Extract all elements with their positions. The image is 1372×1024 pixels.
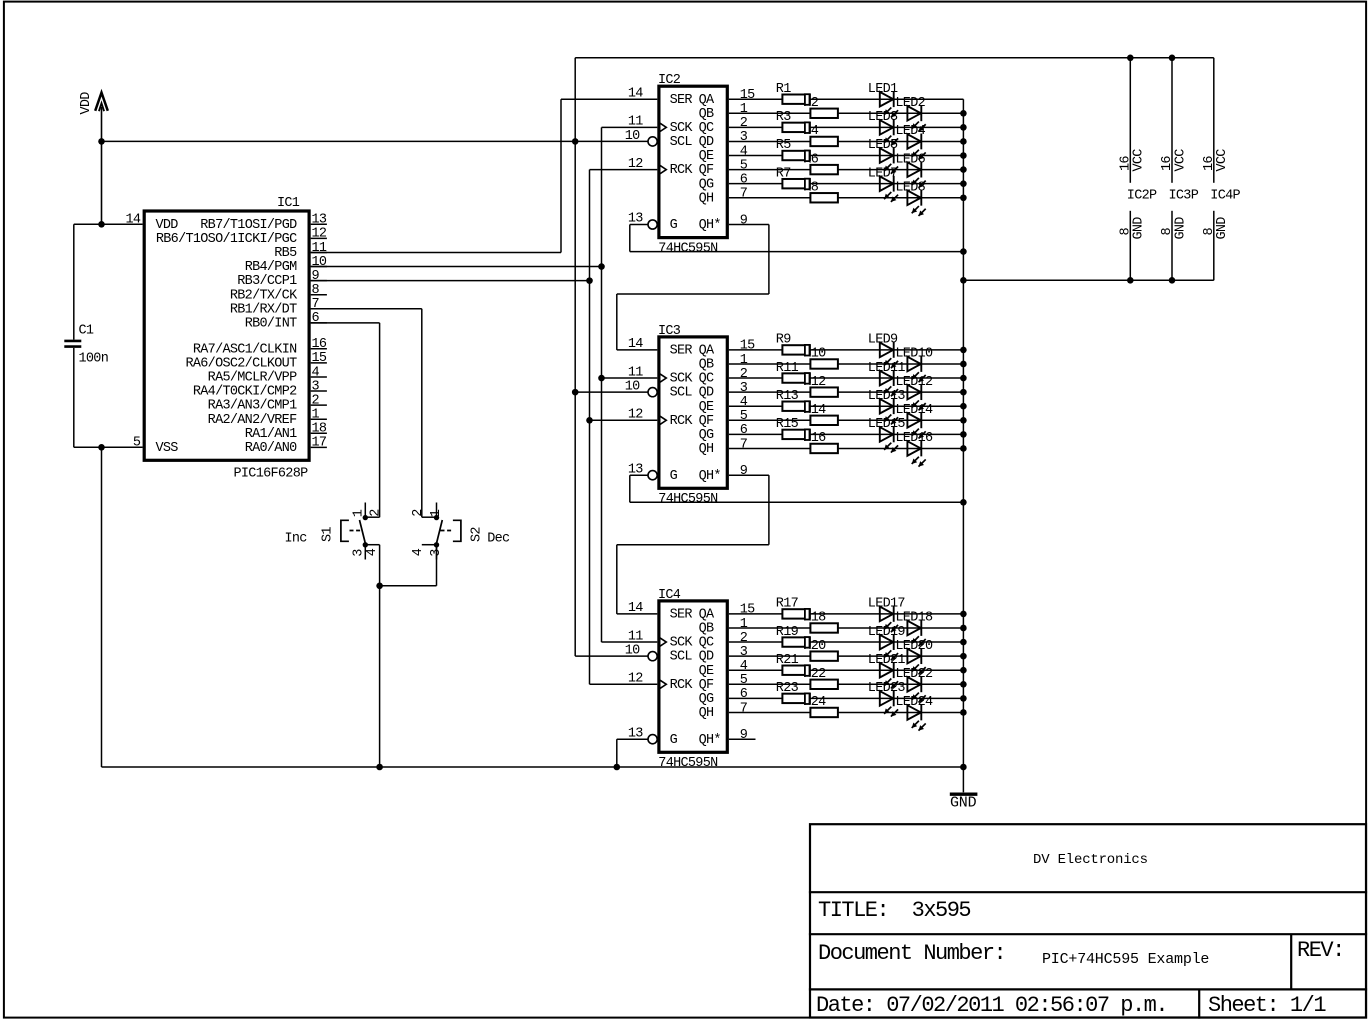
- svg-text:R15: R15: [776, 417, 799, 432]
- svg-text:9: 9: [740, 213, 748, 228]
- svg-text:RA5/MCLR/VPP: RA5/MCLR/VPP: [208, 371, 297, 386]
- junction LED3/bus: [960, 124, 967, 131]
- wire IC2 QH* cascade: [729, 224, 769, 226]
- resistor R19: [782, 637, 810, 646]
- junction LED18/bus: [960, 625, 967, 632]
- svg-text:R13: R13: [776, 389, 799, 404]
- svg-text:G: G: [670, 218, 678, 233]
- svg-text:QB: QB: [699, 622, 714, 637]
- LED LED21: [880, 662, 898, 688]
- svg-text:Document Number:: Document Number:: [818, 941, 1005, 966]
- svg-text:QD: QD: [699, 650, 714, 665]
- wire IC4 QD to LED: [729, 655, 964, 657]
- svg-text:R11: R11: [776, 361, 799, 376]
- LED LED7: [880, 176, 898, 202]
- junction LED19/bus: [960, 639, 967, 646]
- svg-text:RCK: RCK: [670, 414, 694, 429]
- svg-text:1: 1: [740, 617, 748, 632]
- wire IC1 pin14 VDD: [74, 223, 143, 225]
- junction LED24/bus: [960, 709, 967, 716]
- svg-text:Sheet: 1/1: Sheet: 1/1: [1208, 993, 1326, 1018]
- svg-text:6: 6: [740, 687, 748, 702]
- svg-text:QF: QF: [699, 163, 714, 178]
- svg-text:RA6/OSC2/CLKOUT: RA6/OSC2/CLKOUT: [185, 356, 297, 371]
- wire RB0 to S1: [311, 322, 380, 324]
- svg-text:QB: QB: [699, 107, 714, 122]
- svg-text:4: 4: [740, 395, 748, 410]
- junction LED2/bus: [960, 110, 967, 117]
- power symbol VDD: [79, 92, 108, 225]
- wire IC2 QB to LED: [729, 112, 964, 114]
- LED LED14: [907, 412, 925, 438]
- svg-text:Inc: Inc: [285, 532, 308, 547]
- svg-text:S1: S1: [321, 527, 336, 542]
- wire IC3 QE to LED: [729, 405, 964, 407]
- IC1 microcontroller PIC16F628P: [125, 196, 326, 481]
- wire IC3 QB to LED: [729, 363, 964, 365]
- svg-text:11: 11: [628, 365, 643, 380]
- resistor R8: [810, 193, 838, 202]
- junction LED15/bus: [960, 431, 967, 438]
- junction LED23/bus: [960, 695, 967, 702]
- LED LED3: [880, 119, 898, 145]
- wire IC4 QE to LED: [729, 669, 964, 671]
- svg-text:6: 6: [312, 311, 320, 326]
- wire IC4 QH* cascade: [729, 738, 756, 740]
- junction LED6/bus: [960, 166, 967, 173]
- resistor R15: [782, 430, 810, 439]
- svg-text:RB4/PGM: RB4/PGM: [245, 260, 297, 275]
- wire IC2 QC to LED: [729, 126, 964, 128]
- wire IC4 G to ground: [617, 738, 648, 740]
- svg-text:SCK: SCK: [670, 121, 694, 136]
- power pins IC2P: [1118, 58, 1157, 280]
- svg-text:16: 16: [312, 337, 327, 352]
- wire IC3 SCL: [575, 391, 648, 393]
- resistor R23: [782, 694, 810, 703]
- LED LED20: [907, 648, 925, 674]
- svg-text:IC4: IC4: [658, 588, 681, 603]
- svg-text:7: 7: [740, 187, 748, 202]
- LED LED2: [907, 105, 925, 131]
- svg-text:17: 17: [312, 436, 327, 451]
- resistor R10: [810, 359, 838, 368]
- svg-text:6: 6: [740, 172, 748, 187]
- svg-text:7: 7: [740, 437, 748, 452]
- svg-text:2: 2: [368, 509, 383, 517]
- capacitor C1: [64, 224, 108, 447]
- wire IC3 QH to LED: [729, 447, 964, 449]
- power pins IC4P: [1202, 58, 1241, 280]
- wire IC4 QG to LED: [729, 697, 964, 699]
- resistor R2: [810, 109, 838, 118]
- resistor R7: [782, 179, 810, 188]
- svg-text:RA4/T0CKI/CMP2: RA4/T0CKI/CMP2: [193, 385, 297, 400]
- LED LED11: [880, 370, 898, 396]
- inverter bubble IC4 SCL pin10: [648, 652, 657, 661]
- svg-text:QG: QG: [699, 177, 714, 192]
- svg-text:IC1: IC1: [277, 196, 300, 211]
- svg-text:10: 10: [312, 255, 327, 270]
- junction LED17/bus: [960, 611, 967, 618]
- wire IC4 RCK: [590, 683, 658, 685]
- wire IC3 QH* cascade: [729, 474, 769, 476]
- svg-text:R7: R7: [776, 166, 791, 181]
- power pins IC3P: [1160, 58, 1199, 280]
- wire IC2 RCK: [590, 169, 658, 171]
- svg-text:8: 8: [312, 283, 320, 298]
- junction LED13/bus: [960, 403, 967, 410]
- svg-text:14: 14: [125, 213, 140, 228]
- svg-text:QE: QE: [699, 400, 714, 415]
- LED LED17: [880, 606, 898, 632]
- svg-text:Dec: Dec: [487, 532, 510, 547]
- wire IC3 QC to LED: [729, 377, 964, 379]
- junction LED12/bus: [960, 389, 967, 396]
- svg-text:3: 3: [312, 379, 320, 394]
- svg-text:11: 11: [312, 241, 327, 256]
- wire ground bottom rail: [102, 766, 964, 768]
- svg-text:QH*: QH*: [699, 218, 721, 233]
- svg-text:IC2P: IC2P: [1127, 189, 1157, 204]
- svg-text:74HC595N: 74HC595N: [658, 756, 718, 771]
- svg-text:R1: R1: [776, 82, 791, 97]
- svg-text:RA2/AN2/VREF: RA2/AN2/VREF: [208, 413, 297, 428]
- inverter bubble IC2 SCL pin10: [648, 137, 657, 146]
- svg-text:QD: QD: [699, 386, 714, 401]
- svg-text:1: 1: [740, 102, 748, 117]
- svg-text:IC2: IC2: [658, 73, 681, 88]
- svg-text:1: 1: [312, 408, 320, 423]
- svg-text:QD: QD: [699, 135, 714, 150]
- svg-text:SCL: SCL: [670, 135, 693, 150]
- svg-text:4: 4: [740, 144, 748, 159]
- svg-text:SCL: SCL: [670, 386, 693, 401]
- wire IC3 QD to LED: [729, 391, 964, 393]
- switch S1 (Inc): [285, 503, 384, 560]
- wire IC4 SCL: [575, 655, 648, 657]
- svg-text:QF: QF: [699, 414, 714, 429]
- resistor R17: [782, 609, 810, 618]
- wire IC3 QG to LED: [729, 433, 964, 435]
- ground symbol GND: [950, 767, 978, 811]
- svg-text:QF: QF: [699, 678, 714, 693]
- svg-text:7: 7: [312, 297, 320, 312]
- wire IC3 G to ground: [630, 474, 648, 476]
- svg-text:2: 2: [740, 367, 748, 382]
- junction IC3P VCC/top rail: [1169, 55, 1176, 62]
- wire switches to ground: [379, 545, 381, 767]
- junction LED20/bus: [960, 653, 967, 660]
- junction LED4/bus: [960, 138, 967, 145]
- wire IC3 QF to LED: [729, 419, 964, 421]
- wire IC2 QG to LED: [729, 183, 964, 185]
- svg-text:18: 18: [312, 422, 327, 437]
- LED LED23: [880, 690, 898, 716]
- junction VDD rail/stem: [98, 138, 105, 145]
- junction IC2P GND/rail: [1127, 277, 1134, 284]
- svg-text:14: 14: [628, 601, 643, 616]
- svg-text:R9: R9: [776, 333, 791, 348]
- junction ground rail/bus: [960, 764, 967, 771]
- junction VDD/top rail: [572, 138, 579, 145]
- svg-text:12: 12: [628, 672, 643, 687]
- svg-text:1: 1: [740, 353, 748, 368]
- svg-text:RB2/TX/CK: RB2/TX/CK: [230, 288, 298, 303]
- junction IC2P VCC/top rail: [1127, 55, 1134, 62]
- wire RB5 serial data net: [311, 251, 561, 253]
- wire IC2 QE to LED: [729, 155, 964, 157]
- svg-text:S2: S2: [470, 527, 485, 542]
- svg-text:3: 3: [740, 130, 748, 145]
- wire LED cathode bus: [962, 99, 964, 767]
- svg-text:C1: C1: [79, 324, 94, 339]
- svg-text:IC4P: IC4P: [1210, 189, 1240, 204]
- junction LED7/bus: [960, 180, 967, 187]
- junction pin14/VDD stem: [98, 221, 105, 228]
- svg-text:14: 14: [628, 337, 643, 352]
- svg-text:14: 14: [628, 86, 643, 101]
- svg-text:RA0/AN0: RA0/AN0: [245, 441, 297, 456]
- svg-text:QC: QC: [699, 636, 714, 651]
- resistor R16: [810, 444, 838, 453]
- wire IC3 RCK: [590, 419, 658, 421]
- resistor R21: [782, 666, 810, 675]
- wire IC2 QH to LED: [729, 197, 964, 199]
- resistor R6: [810, 165, 838, 174]
- svg-text:SCK: SCK: [670, 372, 694, 387]
- LED LED16: [907, 441, 925, 467]
- resistor R1: [782, 95, 810, 104]
- LED LED1: [880, 91, 898, 117]
- svg-text:VCC: VCC: [1215, 149, 1230, 172]
- svg-text:RA1/AN1: RA1/AN1: [245, 427, 297, 442]
- wire IC2 QD to LED: [729, 140, 964, 142]
- svg-text:IC3: IC3: [658, 324, 681, 339]
- junction IC3P GND/rail: [1169, 277, 1176, 284]
- svg-text:4: 4: [312, 365, 320, 380]
- LED LED22: [907, 676, 925, 702]
- resistor R22: [810, 680, 838, 689]
- title block: [809, 824, 1367, 1018]
- wire IC4 QF to LED: [729, 683, 964, 685]
- svg-text:5: 5: [740, 409, 748, 424]
- wire VDD vertical distribution: [574, 58, 576, 656]
- svg-text:QH: QH: [699, 706, 714, 721]
- LED LED5: [880, 148, 898, 174]
- wire top VCC rail: [575, 57, 1214, 59]
- svg-text:QB: QB: [699, 358, 714, 373]
- svg-text:GND: GND: [1173, 217, 1188, 240]
- svg-text:R3: R3: [776, 110, 791, 125]
- svg-text:9: 9: [740, 464, 748, 479]
- inverter bubble IC3 G pin13: [648, 471, 657, 480]
- svg-text:QA: QA: [699, 93, 715, 108]
- IC3 shift register 74HC595N: [625, 324, 755, 507]
- svg-text:IC3P: IC3P: [1169, 189, 1199, 204]
- resistor R9: [782, 345, 810, 354]
- svg-text:13: 13: [312, 213, 327, 228]
- wire IC4 QB to LED: [729, 627, 964, 629]
- svg-text:6: 6: [740, 423, 748, 438]
- svg-text:REV:: REV:: [1297, 938, 1344, 963]
- LED LED8: [907, 190, 925, 216]
- junction LED21/bus: [960, 667, 967, 674]
- svg-text:QC: QC: [699, 372, 714, 387]
- resistor R4: [810, 137, 838, 146]
- svg-text:3: 3: [740, 381, 748, 396]
- resistor R3: [782, 123, 810, 132]
- svg-text:RB7/T1OSI/PGD: RB7/T1OSI/PGD: [200, 218, 297, 233]
- svg-text:1: 1: [351, 509, 366, 517]
- wire IC4 QA to LED: [729, 613, 964, 615]
- IC2 shift register 74HC595N: [625, 73, 755, 256]
- LED LED24: [907, 705, 925, 731]
- LED LED9: [880, 342, 898, 368]
- IC4 shift register 74HC595N: [625, 588, 755, 771]
- svg-text:15: 15: [312, 351, 327, 366]
- svg-text:10: 10: [625, 644, 640, 659]
- svg-text:RCK: RCK: [670, 678, 694, 693]
- svg-text:15: 15: [740, 88, 755, 103]
- svg-text:SER: SER: [670, 93, 693, 108]
- svg-text:VDD: VDD: [79, 92, 94, 115]
- LED LED15: [880, 426, 898, 452]
- junction LED11/bus: [960, 375, 967, 382]
- svg-text:74HC595N: 74HC595N: [658, 492, 718, 507]
- svg-text:10: 10: [625, 380, 640, 395]
- svg-text:74HC595N: 74HC595N: [658, 241, 718, 256]
- wire RB4 SCK net: [311, 266, 602, 268]
- svg-text:11: 11: [628, 629, 643, 644]
- svg-text:15: 15: [740, 603, 755, 618]
- svg-text:R17: R17: [776, 597, 799, 612]
- junction LED16/bus: [960, 445, 967, 452]
- LED LED18: [907, 620, 925, 646]
- wire IC2 QF to LED: [729, 169, 964, 171]
- resistor R12: [810, 387, 838, 396]
- junction LED10/bus: [960, 361, 967, 368]
- svg-text:QE: QE: [699, 149, 714, 164]
- switch S2 (Dec): [411, 503, 510, 560]
- resistor R13: [782, 402, 810, 411]
- svg-text:Date: 07/02/2011 02:56:07 p.m.: Date: 07/02/2011 02:56:07 p.m.: [816, 993, 1167, 1018]
- svg-text:VSS: VSS: [156, 441, 179, 456]
- svg-text:7: 7: [740, 701, 748, 716]
- svg-text:RB3/CCP1: RB3/CCP1: [237, 274, 297, 289]
- wire IC3 SCK: [602, 377, 658, 379]
- junction LED9/bus: [960, 347, 967, 354]
- resistor R5: [782, 151, 810, 160]
- wire power GND rail: [963, 279, 1213, 281]
- wire IC3 QA to LED: [729, 349, 964, 351]
- svg-text:RA3/AN3/CMP1: RA3/AN3/CMP1: [208, 399, 297, 414]
- resistor R18: [810, 623, 838, 632]
- svg-text:4: 4: [365, 548, 380, 556]
- svg-text:PIC+74HC595 Example: PIC+74HC595 Example: [1042, 951, 1209, 968]
- svg-text:GND: GND: [1132, 217, 1147, 240]
- junction LED5/bus: [960, 152, 967, 159]
- resistor R20: [810, 651, 838, 660]
- wire IC4 QC to LED: [729, 641, 964, 643]
- inverter bubble IC4 G pin13: [648, 735, 657, 744]
- junction LED8/bus: [960, 194, 967, 201]
- LED LED10: [907, 356, 925, 382]
- svg-text:2: 2: [312, 393, 320, 408]
- wire ground left drop: [101, 447, 103, 767]
- wire IC2 SCK: [602, 126, 658, 128]
- svg-text:RCK: RCK: [670, 163, 694, 178]
- svg-text:G: G: [670, 733, 678, 748]
- svg-text:9: 9: [312, 269, 320, 284]
- junction power GND rail/bus: [960, 277, 967, 284]
- svg-text:5: 5: [740, 158, 748, 173]
- svg-text:R5: R5: [776, 138, 791, 153]
- LED LED6: [907, 162, 925, 188]
- resistor R14: [810, 416, 838, 425]
- svg-text:4: 4: [740, 659, 748, 674]
- LED LED12: [907, 384, 925, 410]
- svg-text:RB6/T1OSO/1ICKI/PGC: RB6/T1OSO/1ICKI/PGC: [156, 232, 297, 247]
- svg-text:QA: QA: [699, 344, 715, 359]
- resistor R24: [810, 708, 838, 717]
- svg-text:12: 12: [312, 227, 327, 242]
- svg-text:G: G: [670, 469, 678, 484]
- svg-text:10: 10: [625, 129, 640, 144]
- svg-text:5: 5: [133, 436, 141, 451]
- junction LED22/bus: [960, 681, 967, 688]
- svg-text:12: 12: [628, 408, 643, 423]
- svg-text:QG: QG: [699, 692, 714, 707]
- svg-text:QA: QA: [699, 608, 715, 623]
- svg-text:RB1/RX/DT: RB1/RX/DT: [230, 302, 297, 317]
- inverter bubble IC2 G pin13: [648, 220, 657, 229]
- svg-text:2: 2: [740, 631, 748, 646]
- wire IC1 pin5 VSS: [74, 446, 143, 448]
- svg-text:9: 9: [740, 728, 748, 743]
- svg-text:QH: QH: [699, 442, 714, 457]
- LED LED13: [880, 398, 898, 424]
- svg-text:5: 5: [740, 673, 748, 688]
- svg-text:R21: R21: [776, 653, 799, 668]
- svg-text:SCL: SCL: [670, 650, 693, 665]
- junction switch commons: [376, 583, 383, 590]
- wire RB1 to S2: [311, 308, 422, 310]
- junction switches/ground rail: [376, 764, 383, 771]
- svg-text:QH: QH: [699, 191, 714, 206]
- svg-text:GND: GND: [950, 794, 977, 811]
- resistor R11: [782, 373, 810, 382]
- svg-text:QC: QC: [699, 121, 714, 136]
- LED LED19: [880, 634, 898, 660]
- svg-text:QE: QE: [699, 664, 714, 679]
- svg-text:4: 4: [411, 548, 426, 556]
- svg-text:R23: R23: [776, 681, 799, 696]
- svg-text:TITLE: 3x595: TITLE: 3x595: [818, 898, 970, 923]
- svg-text:QH*: QH*: [699, 733, 721, 748]
- svg-text:15: 15: [740, 339, 755, 354]
- svg-text:SER: SER: [670, 344, 693, 359]
- svg-text:SCK: SCK: [670, 636, 694, 651]
- svg-text:RB0/INT: RB0/INT: [245, 316, 297, 331]
- wire IC4 SCK: [602, 641, 658, 643]
- svg-text:3: 3: [740, 645, 748, 660]
- svg-text:2: 2: [740, 116, 748, 131]
- junction pin5/ground drop: [98, 444, 105, 451]
- svg-text:RB5: RB5: [274, 246, 297, 261]
- svg-text:DV Electronics: DV Electronics: [1033, 852, 1148, 868]
- svg-text:2: 2: [411, 509, 426, 517]
